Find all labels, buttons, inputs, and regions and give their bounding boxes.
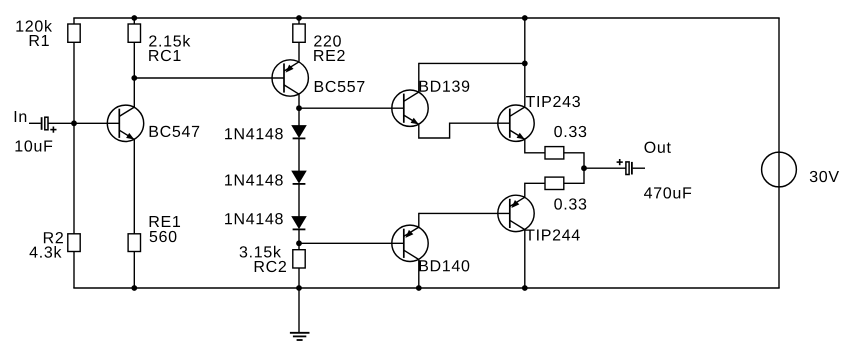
D3 label [225, 213, 283, 224]
wire R1 top stub [73, 18, 75, 24]
wire BD140 emitter riser [418, 213, 420, 227]
BC547 label [150, 126, 200, 137]
BC557 label [315, 81, 365, 92]
wire D3 to lower node [298, 229, 300, 243]
RC2 label [255, 261, 286, 272]
wire D1 to D2 [298, 138, 300, 171]
RE1 label [150, 216, 180, 227]
node TIP244 collector rail junction [522, 285, 528, 291]
resistor R1 [68, 24, 80, 42]
wire output node to lower 0.33 [564, 168, 584, 183]
lower 0.33 value label [554, 198, 586, 209]
R2 label [44, 232, 63, 243]
transistor TIP244 [498, 195, 534, 231]
wire lower 0.33 to TIP244 emitter [525, 183, 545, 197]
resistor RE1 [128, 234, 140, 252]
wire upper 0.33 to output node [564, 153, 584, 168]
resistor R2 [68, 234, 80, 252]
transistor TIP243 [498, 105, 534, 141]
wire collector node down to BC547 collector [133, 78, 135, 108]
wire diode node to BD139 base [299, 107, 404, 109]
wire TIP243 collector [524, 63, 526, 107]
wire RE2 top stub [298, 18, 300, 24]
wire TIP243 emitter to upper 0.33 [525, 139, 545, 152]
wire lower node to RC2 [298, 243, 300, 249]
node RC1 top rail junction [131, 15, 137, 21]
ground [290, 332, 310, 334]
30V value label [810, 171, 839, 182]
Out terminal label [645, 142, 671, 153]
wire BC557 collector to diode node [298, 94, 300, 108]
wire C1 to input node [48, 122, 74, 124]
node input junction [71, 120, 77, 126]
wire ground stem [298, 288, 300, 333]
wire top supply rail [73, 17, 779, 19]
node BD139 collector / TIP243 collector junction [522, 61, 528, 67]
diode D2 1N4148 [292, 171, 306, 184]
wire BD140 emitter to TIP244 base [419, 212, 510, 214]
wire C2 to Out terminal [633, 167, 645, 169]
resistor 0.33 upper [545, 147, 564, 159]
C2 value label [644, 187, 691, 198]
wire BD139 emitter to TIP243 base [419, 123, 510, 138]
node BC557 collector / D1 / BD139 base junction [296, 105, 302, 111]
BD139 label [420, 81, 470, 92]
voltage source 30V [762, 152, 797, 187]
resistor 0.33 lower [545, 177, 564, 189]
wire bottom rail [73, 287, 779, 289]
wire lower node to BD140 base [299, 242, 404, 244]
wire RC2 bottom [298, 268, 300, 288]
transistor BC547 [107, 105, 143, 141]
node TIP243 top rail junction [522, 15, 528, 21]
wire In terminal stub [29, 122, 41, 124]
RE2 value label [314, 35, 341, 46]
wire RC1 to collector node [133, 42, 135, 78]
wire BD140 collector [418, 260, 420, 289]
transistor BD139 [392, 90, 428, 126]
wire input node to BC547 base [74, 122, 119, 124]
node BD140 collector rail junction [416, 285, 422, 291]
wire RC1 top stub [133, 18, 135, 24]
transistor BC557 [272, 60, 308, 96]
R1 value label [16, 20, 52, 32]
C1 value label [16, 140, 53, 151]
node output junction [581, 165, 587, 171]
RC1 label [149, 50, 180, 61]
In terminal label [15, 111, 27, 122]
diode D1 1N4148 [292, 126, 306, 139]
node D3 / RC2 / BD140 base junction [296, 240, 302, 246]
R2 value label [30, 246, 62, 258]
wire R1 bottom to input node [73, 42, 75, 123]
wire input node to R2 [73, 123, 75, 234]
wire collector node to BC557 base [134, 77, 284, 79]
wire BD139 collector riser [418, 63, 420, 92]
wire RE2 to BC557 emitter [298, 42, 300, 62]
resistor RE2 [293, 24, 305, 42]
wire R2 bottom [73, 252, 75, 289]
capacitor C1 10uF (input) [41, 117, 43, 130]
wire BD139 collector to rail tap [419, 62, 525, 64]
D1 label [225, 128, 283, 139]
TIP243 label [526, 96, 580, 107]
BD140 label [420, 260, 470, 271]
diode D3 1N4148 [292, 217, 306, 230]
RE2 label [314, 50, 344, 61]
R1 label [30, 35, 49, 46]
wire diode node to D1 [298, 108, 300, 125]
resistor RC2 [293, 250, 305, 268]
RC1 value label [149, 35, 190, 47]
D2 label [225, 174, 283, 185]
wire output node to C2 [584, 167, 626, 169]
wire rail tap up to top rail [524, 18, 526, 63]
node RE2 top rail junction [296, 15, 302, 21]
wire right supply rail [778, 18, 780, 288]
RC2 value label [240, 246, 281, 258]
resistor RC1 [128, 24, 140, 42]
RE1 value label [150, 231, 177, 242]
capacitor C2 470uF (output) [626, 162, 629, 175]
wire BC547 emitter to RE1 [133, 140, 135, 234]
node RC1 / BC547 collector / BC557 base junction [131, 75, 137, 81]
TIP244 label [526, 229, 580, 240]
wire TIP244 collector [524, 230, 526, 288]
node RE1 bottom rail junction [131, 285, 137, 291]
transistor BD140 [392, 225, 428, 261]
wire D2 to D3 [298, 184, 300, 217]
upper 0.33 value label [554, 126, 586, 137]
node ground rail junction [296, 285, 302, 291]
wire RE1 bottom [133, 252, 135, 289]
